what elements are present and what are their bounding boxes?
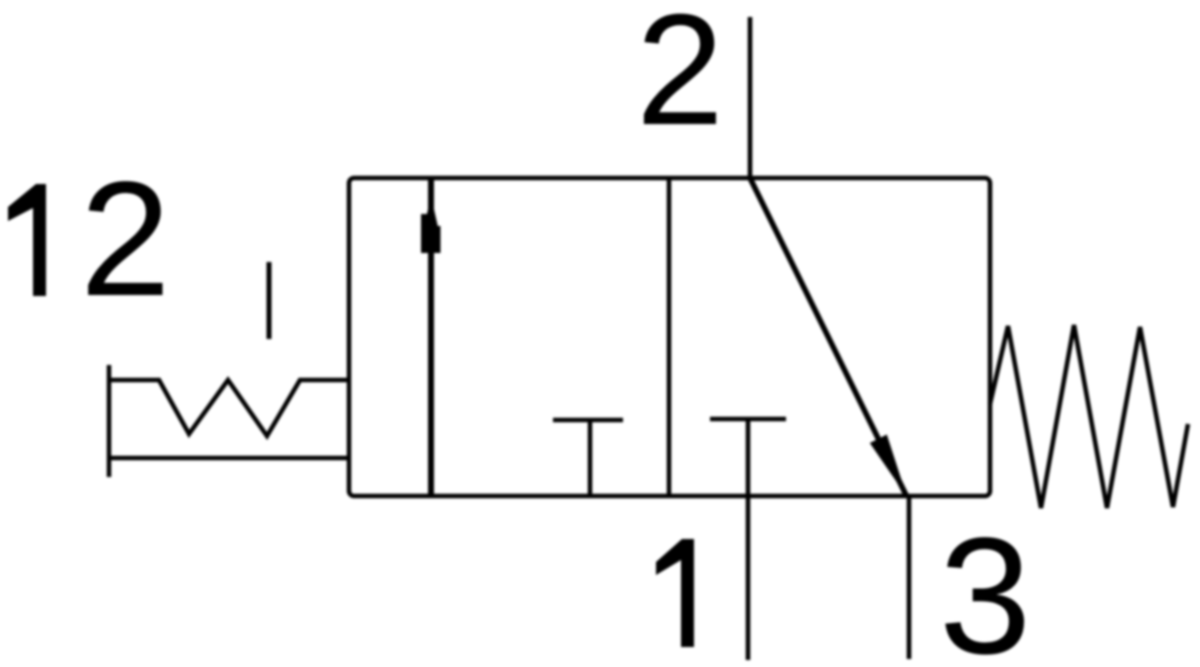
flow path arrow 1->2 head (stepped lobes) bbox=[421, 214, 430, 253]
pilot line mark above actuator bbox=[267, 262, 272, 339]
label 1 (supply port) drawn as path bbox=[656, 539, 694, 647]
pilot actuator 12 left end bar bbox=[107, 365, 112, 477]
svg-text:2: 2 bbox=[636, 0, 724, 158]
flow path arrow 1->2 shaft (left box) bbox=[428, 180, 434, 496]
pilot actuator 12 top edge with zigzag bbox=[109, 380, 349, 436]
svg-text:2: 2 bbox=[80, 147, 171, 330]
flow path 2->3 arrowhead bbox=[870, 435, 907, 498]
blocked port 1 T stem / port 1 connection line bbox=[746, 419, 751, 660]
position divider line bbox=[667, 178, 672, 496]
flow path 2->3 diagonal line (right box) bbox=[750, 178, 907, 497]
port 2 connection line bbox=[748, 17, 753, 178]
blocked port 3 T stem (left box) bbox=[588, 420, 593, 497]
blocked port 3 T bar (left box) bbox=[553, 418, 623, 423]
port 3 connection line bbox=[907, 497, 912, 659]
valve body (two position boxes) bbox=[349, 178, 990, 496]
blocked port 1 T bar (right box) bbox=[710, 417, 786, 422]
svg-text:3: 3 bbox=[939, 504, 1031, 667]
label 12 (pilot port): digit 1 drawn as path bbox=[8, 184, 46, 296]
pilot actuator 12 bottom edge bbox=[109, 456, 349, 461]
return spring (right side) bbox=[990, 325, 1188, 508]
